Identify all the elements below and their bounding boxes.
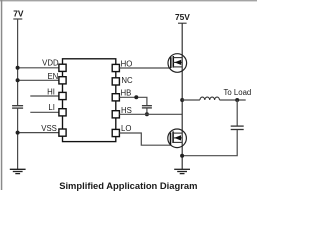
node junction rail-VSS: [16, 131, 20, 135]
svg-text:VDD: VDD: [42, 59, 59, 68]
wire inductor to load: [220, 99, 246, 101]
wire VDD to rail: [18, 67, 59, 69]
svg-text:EN: EN: [47, 72, 58, 81]
svg-text:NC: NC: [121, 76, 133, 85]
wire LI input: [30, 111, 59, 113]
wire C3 bottom to ground rail: [182, 130, 237, 156]
capacitor C2 (bootstrap): [142, 106, 152, 108]
node junction switch-inductor: [180, 98, 184, 102]
wire VSS to rail: [18, 132, 59, 134]
wire output junction down to C3: [236, 100, 238, 126]
node 75V terminal: [175, 12, 190, 23]
svg-text:LO: LO: [121, 124, 131, 133]
wire HI input: [30, 95, 59, 97]
pin HI box: [59, 92, 66, 99]
wire LO to Q2 gate: [119, 133, 170, 145]
wire HO to Q1 gate: [119, 67, 170, 69]
node junction C2-HS: [145, 112, 149, 116]
node junction rail-VDD: [16, 66, 20, 70]
capacitor C1 (input bypass): [12, 106, 23, 108]
pin HO box: [112, 64, 119, 71]
pin LI box: [59, 109, 66, 116]
ground (right): [174, 169, 190, 173]
wire C2 bottom to HS: [146, 108, 148, 114]
svg-text:HI: HI: [47, 87, 55, 96]
svg-text:HB: HB: [121, 88, 132, 97]
wire 7V rail upper segment: [17, 19, 19, 105]
node junction on HB wire: [134, 95, 138, 99]
op-amp U1 gate-driver IC body: [63, 59, 116, 142]
node junction ground: [180, 154, 184, 158]
pin EN box: [59, 77, 66, 84]
border frame: [0, 0, 257, 190]
capacitor C3 (output): [231, 126, 244, 129]
transistor Q1 high-side NMOS: [168, 54, 187, 73]
transistor Q2 low-side NMOS: [168, 129, 187, 148]
svg-text:VSS: VSS: [41, 124, 57, 133]
wire switch node to inductor: [182, 99, 200, 101]
svg-text:Simplified Application Diagram: Simplified Application Diagram: [59, 180, 197, 191]
pin LO box: [112, 129, 119, 136]
svg-text:To Load: To Load: [224, 88, 252, 97]
wire EN to rail: [18, 79, 59, 81]
pin HB box: [112, 94, 119, 101]
pin NC box: [112, 78, 119, 85]
wire HS to switch node: [119, 113, 182, 115]
svg-text:7V: 7V: [13, 9, 24, 19]
inductor L1: [200, 97, 220, 100]
node junction rail-EN: [16, 78, 20, 82]
pin HS box: [112, 111, 119, 118]
wire 7V rail lower segment (below C1): [17, 109, 19, 170]
node 7V terminal: [13, 9, 24, 20]
svg-text:75V: 75V: [175, 12, 190, 22]
wire 75V to Q1 drain down through Q2 source to ground junction: [181, 23, 183, 169]
pin VSS box: [59, 129, 66, 136]
svg-text:HO: HO: [121, 60, 133, 69]
svg-text:LI: LI: [48, 103, 55, 112]
ground (left): [10, 169, 26, 173]
wire HB to bootstrap cap: [119, 97, 146, 105]
pin VDD box: [59, 64, 66, 71]
svg-text:HS: HS: [121, 106, 132, 115]
node junction output cap: [235, 98, 239, 102]
